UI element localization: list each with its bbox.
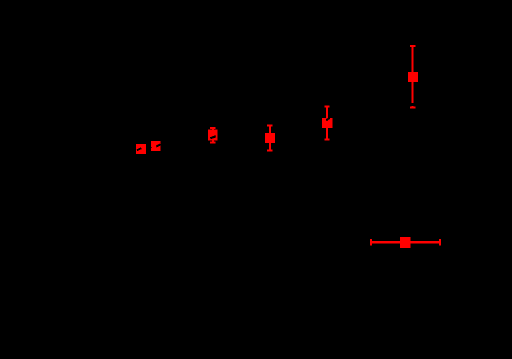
data point P5 marker (filled red square) — [322, 118, 332, 128]
legend key sample left cap — [370, 239, 372, 245]
error bar bottom cap P5 — [324, 139, 329, 141]
error bar top cap P5 — [324, 106, 329, 108]
error bar top cap P3 — [210, 127, 215, 129]
legend key sample right cap — [439, 239, 441, 245]
curve dash nick at P2 left edge — [151, 146, 152, 149]
error bar top cap P6 — [410, 45, 415, 47]
data point P6 marker (filled red square) — [408, 72, 418, 82]
error bar top cap P4 — [267, 125, 272, 127]
data point P3 marker (filled red square) — [208, 130, 218, 141]
error bar bottom cap P6 — [410, 107, 415, 109]
curve dash segment over P3 — [210, 136, 215, 138]
data point P4 marker (filled red square) — [265, 133, 275, 143]
curve dash segment over P6 stem — [411, 103, 416, 106]
error bar stem P4 — [269, 126, 271, 151]
error bar stem P5 — [326, 107, 328, 140]
error bar stem P6 — [412, 46, 414, 107]
curve dash segment over P2 right edge — [156, 145, 160, 147]
legend key sample marker (filled red square) — [400, 237, 410, 248]
data point P2 marker (filled red square) — [151, 141, 161, 151]
curve dash segment over P5 top edge — [326, 118, 330, 121]
legend key sample line — [371, 241, 440, 243]
curve dash segment over P1 — [137, 148, 141, 150]
error bar bottom cap P3 — [210, 142, 215, 144]
data point P1 marker (filled red square) — [136, 144, 146, 154]
error bar stem P3 — [212, 128, 214, 143]
error bar bottom cap P4 — [267, 149, 272, 151]
